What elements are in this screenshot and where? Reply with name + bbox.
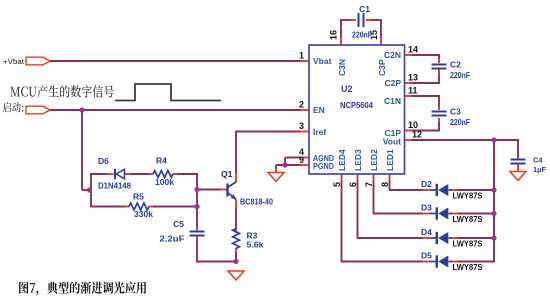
wire: Vout rail down LED anode column: [493, 140, 495, 262]
pin number 7: [364, 182, 374, 187]
pin stub pin7: [373, 174, 375, 181]
svg-text:PGND: PGND: [313, 161, 334, 171]
pin stub pin14: [405, 54, 413, 56]
pin stub pin12: [405, 139, 413, 141]
pin stub pin15: [380, 37, 382, 46]
wire: +Vbat to pin1: [50, 60, 300, 62]
wire: LED2 pin7 to D3: [374, 180, 495, 214]
pin name EN: [313, 105, 325, 115]
svg-text:3: 3: [299, 121, 304, 131]
pin number 4: [299, 147, 304, 157]
pin number 9: [299, 155, 304, 165]
svg-text:C3N: C3N: [337, 59, 347, 76]
wire: LED4 pin5 to D5: [342, 180, 495, 262]
svg-text:Q1: Q1: [221, 169, 233, 179]
resistor R3 5.6k: [233, 229, 264, 253]
svg-text:2: 2: [299, 100, 304, 110]
pin stub pin10: [405, 130, 413, 132]
pin name AGND: [313, 153, 334, 163]
svg-text:NCP5604: NCP5604: [340, 100, 373, 110]
pin name LED3: [353, 149, 363, 171]
svg-text:D3: D3: [421, 203, 432, 213]
svg-text:U2: U2: [341, 84, 353, 94]
pin name Vbat: [313, 56, 332, 66]
wire junction (494,190): [491, 187, 496, 192]
wire junction (236,261.5): [233, 259, 238, 264]
pin number 16: [329, 30, 339, 40]
svg-text:BC818-40: BC818-40: [240, 197, 273, 207]
pin number 13: [408, 73, 418, 83]
pin number 5: [332, 182, 342, 187]
svg-text:R5: R5: [133, 192, 144, 202]
LED D4 LWY87S: [421, 227, 483, 249]
svg-text:D4: D4: [421, 227, 432, 237]
resistor R4 100k: [149, 156, 177, 188]
pin name PGND: [313, 161, 334, 171]
pin name Iref: [313, 127, 326, 137]
svg-text:D5: D5: [421, 251, 432, 261]
wire: left vertical joining D6 row and R5 row: [90, 174, 92, 208]
svg-text:9: 9: [299, 155, 304, 165]
capacitor C5: [160, 219, 205, 244]
wire junction (82,110): [79, 107, 84, 112]
svg-text:1µF: 1µF: [533, 165, 546, 174]
resistor R5 330k: [125, 192, 153, 220]
svg-text:1: 1: [299, 51, 304, 61]
pin name LED4: [337, 149, 347, 171]
pin name C3N: [337, 59, 347, 76]
pin stub pin3: [300, 131, 309, 133]
svg-text:12: 12: [412, 130, 422, 140]
pin stub pin16: [340, 37, 342, 46]
svg-text:100k: 100k: [155, 177, 174, 187]
pin number 11: [408, 86, 418, 96]
pin number 14: [408, 45, 418, 55]
pulse waveform icon: [115, 84, 221, 101]
svg-text:C2P: C2P: [384, 78, 401, 88]
wire: C1 flying cap loop: [340, 20, 382, 39]
wire junction (197,206.5): [194, 204, 199, 209]
pin stub pin2: [300, 109, 309, 111]
wire: Q1 emitter to R3 to ground junction: [235, 207, 237, 262]
wire junction (285,165): [282, 162, 287, 167]
pin name C2P: [384, 78, 401, 88]
svg-text:C3: C3: [450, 107, 461, 117]
LED D3 LWY87S: [421, 203, 483, 225]
svg-text:LED4: LED4: [337, 149, 347, 171]
pin number 6: [348, 182, 358, 187]
svg-text:5: 5: [332, 182, 342, 187]
pin name Vout: [383, 137, 401, 147]
wire: LED1 pin8 to D2: [390, 180, 495, 191]
svg-text:LWY87S: LWY87S: [453, 214, 483, 224]
wire: D6/R4 row: [90, 173, 198, 175]
wire: vertical node at C5 top (base node): [196, 173, 198, 227]
wire: LED3 pin6 to D4: [358, 180, 495, 239]
svg-text:C5: C5: [173, 219, 184, 229]
svg-text:R4: R4: [156, 156, 167, 166]
svg-text:D1N4148: D1N4148: [98, 181, 131, 191]
pin stub pin11: [405, 95, 413, 97]
pin number 8: [380, 182, 390, 187]
svg-text:D2: D2: [421, 179, 432, 189]
label: MCU generated digital signal (Chinese): [10, 85, 114, 97]
pin name C3P: [377, 59, 387, 76]
svg-text:LED1: LED1: [385, 149, 395, 171]
wire: Iref net to Q1 collector: [236, 131, 300, 174]
svg-text:Vout: Vout: [383, 137, 401, 147]
svg-text:14: 14: [408, 45, 418, 55]
wire: C5 bottom to ground rail: [196, 236, 236, 262]
diode D6 D1N4148: [98, 156, 131, 191]
caption: Figure 7 typical gradual dimming application (Chinese): [19, 282, 146, 296]
svg-text:Iref: Iref: [313, 127, 326, 137]
svg-text:EN: EN: [313, 105, 325, 115]
wire junction (494,238): [491, 235, 496, 240]
svg-text:C1: C1: [359, 4, 370, 14]
svg-text:10: 10: [408, 120, 418, 130]
svg-text:C1N: C1N: [384, 96, 401, 106]
svg-text:LWY87S: LWY87S: [453, 262, 483, 272]
wire junction (494,140): [491, 137, 496, 142]
input flag 启动 (start): [3, 102, 50, 114]
wire: Vout net pin12 to C4: [411, 139, 519, 157]
wire: EN net from 启动 flag to pin2: [50, 109, 300, 111]
svg-text:LED2: LED2: [369, 149, 379, 171]
svg-text:220nF: 220nF: [450, 70, 470, 80]
pin stub pin4: [300, 157, 309, 159]
pin number 2: [299, 100, 304, 110]
capacitor C3: [432, 107, 471, 128]
pin name LED2: [369, 149, 379, 171]
pin number 15: [369, 30, 379, 40]
wire junction (89.5,190): [87, 187, 92, 192]
ground for AGND/PGND: [268, 168, 284, 182]
pin stub pin13: [405, 82, 413, 84]
svg-text:13: 13: [408, 73, 418, 83]
pin stub pin9: [300, 164, 309, 166]
svg-text:16: 16: [329, 30, 339, 40]
svg-text:C3P: C3P: [377, 59, 387, 76]
svg-text:7: 7: [364, 182, 374, 187]
svg-text:2.2uF: 2.2uF: [160, 234, 185, 244]
pin number 3: [299, 121, 304, 131]
wire: R5 row: [90, 206, 198, 208]
svg-text:11: 11: [408, 86, 418, 96]
wire junction (494,213.5): [491, 211, 496, 216]
ground below R3: [228, 271, 244, 280]
wire junction (197,189.5): [194, 187, 199, 192]
pin stub pin8: [389, 174, 391, 181]
pin name C1N: [384, 96, 401, 106]
pin name C2N: [384, 50, 401, 60]
svg-text:220nF: 220nF: [450, 117, 470, 127]
svg-text:LWY87S: LWY87S: [453, 191, 483, 201]
svg-text:8: 8: [380, 182, 390, 187]
svg-text:Vbat: Vbat: [313, 56, 332, 66]
wire: PGND pin9 to ground: [276, 165, 300, 168]
pin name LED1: [385, 149, 395, 171]
capacitor C1: [351, 4, 372, 40]
capacitor C4: [511, 156, 547, 175]
wire: C2 flying cap loop pins 14/13: [411, 54, 440, 84]
LED D5 LWY87S: [421, 251, 483, 273]
power flag +Vbat: [3, 57, 50, 66]
pin stub pin5: [341, 174, 343, 181]
op IC U2 NCP5604 body: [309, 45, 405, 174]
svg-text:330k: 330k: [134, 209, 153, 219]
pin number 1: [299, 51, 304, 61]
pin stub pin6: [357, 174, 359, 181]
svg-text:+Vbat: +Vbat: [3, 57, 24, 66]
pin number 10: [408, 120, 418, 130]
wire: AGND pin4 jog: [285, 158, 300, 166]
svg-text:C4: C4: [533, 156, 543, 165]
wire: Q1 base branch: [197, 189, 221, 191]
svg-text:6: 6: [348, 182, 358, 187]
pin name C1P: [384, 128, 401, 138]
svg-text:5.6k: 5.6k: [247, 240, 264, 250]
transistor Q1 BC818-40: [221, 169, 273, 208]
svg-text:C2: C2: [450, 60, 461, 70]
pin number 12: [412, 130, 422, 140]
pin stub pin1: [300, 60, 309, 62]
svg-text:LWY87S: LWY87S: [453, 239, 483, 249]
svg-text:LED3: LED3: [353, 149, 363, 171]
ground for C4: [510, 172, 526, 181]
LED D2 LWY87S: [421, 179, 483, 201]
wire: C3 flying cap loop pins 11/10: [411, 95, 440, 131]
svg-text:C2N: C2N: [384, 50, 401, 60]
svg-text:D6: D6: [98, 156, 109, 166]
capacitor C2: [432, 59, 471, 80]
svg-text:15: 15: [369, 30, 379, 40]
wire: vertical drop from EN net to timing loop: [82, 110, 90, 190]
